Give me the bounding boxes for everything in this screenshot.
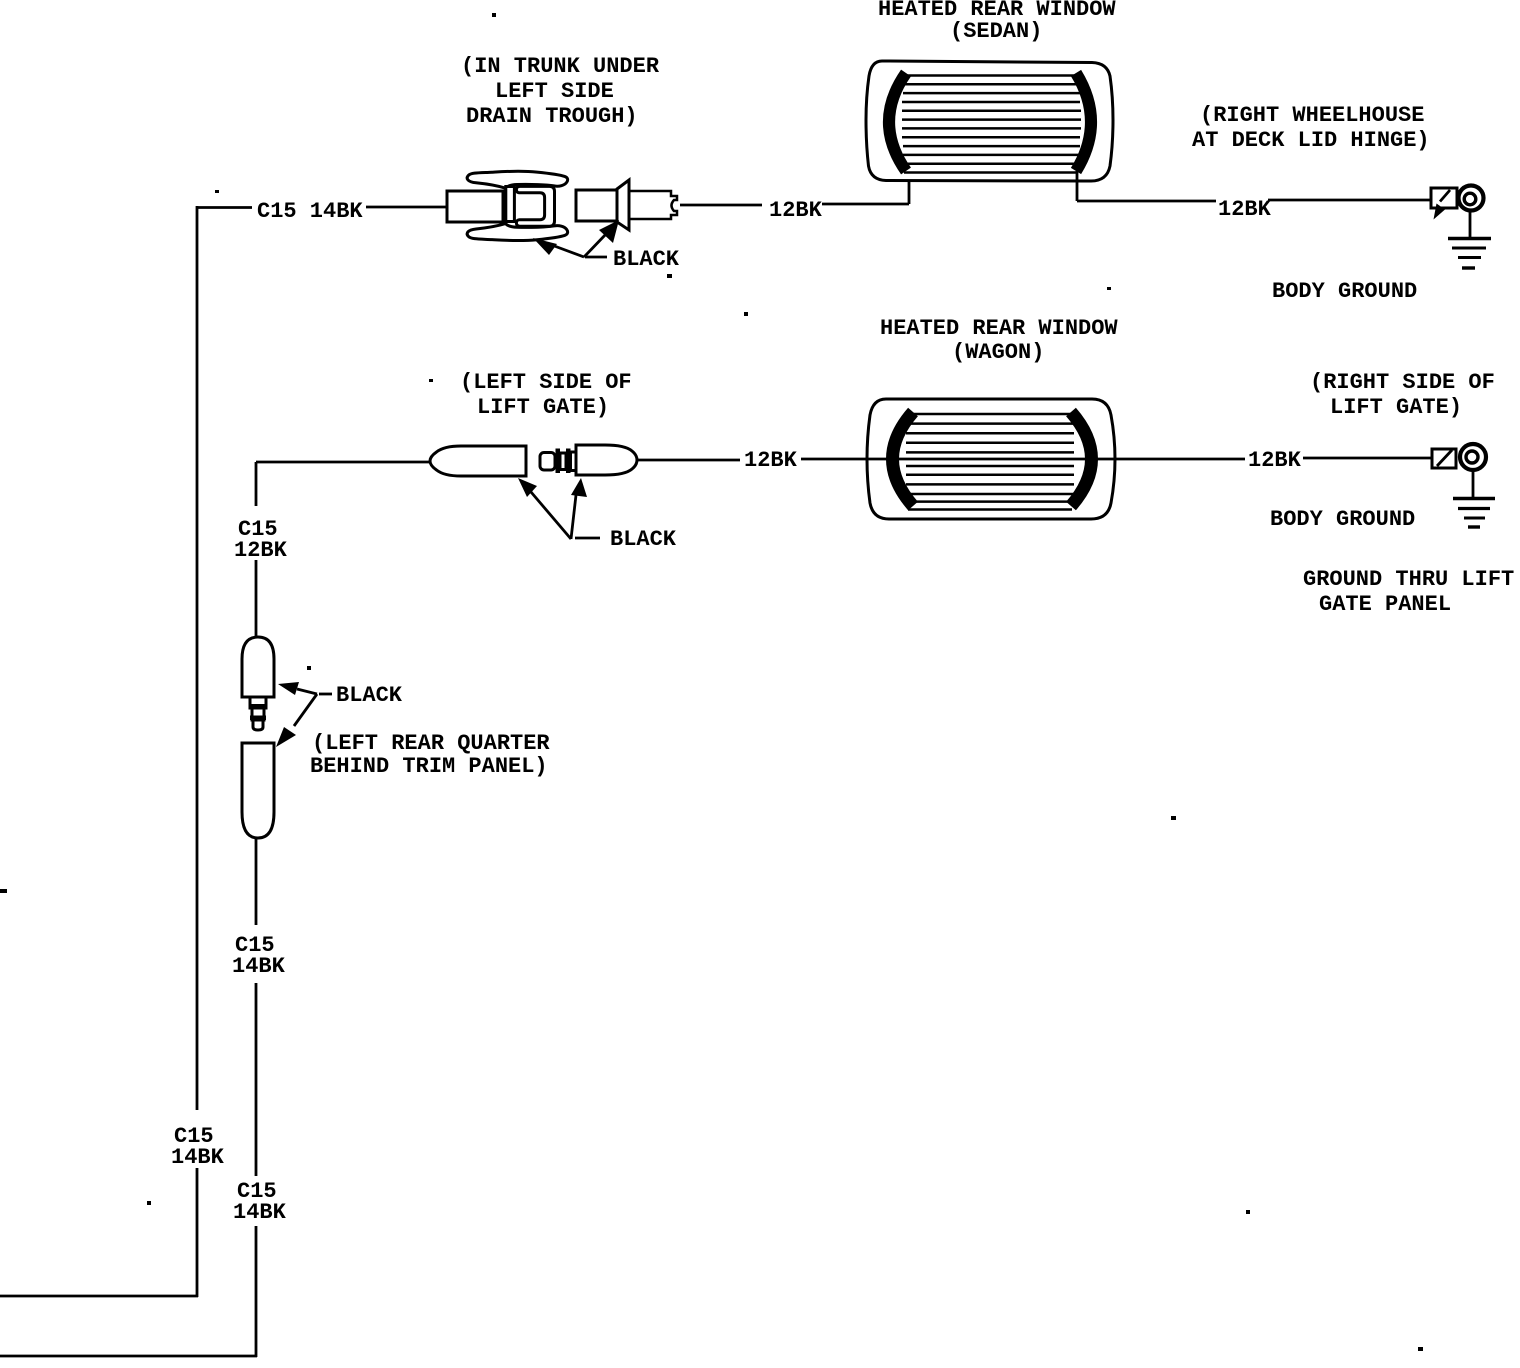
liftgate connector socket: [430, 446, 526, 476]
wagon vertical wire bottom: [255, 1226, 258, 1357]
wire window to 12BK right: [1077, 200, 1216, 203]
svg-text:(LEFT REAR QUARTER: (LEFT REAR QUARTER: [312, 731, 550, 756]
body ground sedan eyelet terminal: [1431, 188, 1457, 208]
left vertical trunk feed wire: [196, 206, 199, 1110]
svg-text:12BK: 12BK: [744, 448, 798, 473]
arrow to upper bullet: [297, 689, 317, 694]
sedan left busbar arc: [889, 73, 906, 171]
connector C15 male flange: [617, 180, 629, 230]
ring terminal sedan: [1459, 186, 1484, 211]
left vertical wire lower segment: [196, 1168, 199, 1297]
svg-text:12BK: 12BK: [1218, 197, 1272, 222]
rear quarter connector socket (upper bullet): [242, 637, 274, 697]
svg-text:BODY GROUND: BODY GROUND: [1270, 507, 1415, 532]
leader to BLACK rear quarter: [319, 693, 332, 696]
wire 12BK to window left stub: [822, 203, 909, 206]
terminal diagonal wagon: [1437, 450, 1452, 466]
svg-text:HEATED REAR WINDOW: HEATED REAR WINDOW: [880, 316, 1118, 341]
label C15 14BK mid: [232, 933, 286, 979]
svg-text:12BK: 12BK: [769, 198, 823, 223]
arrow to bullet: [571, 495, 576, 539]
sedan right busbar arc: [1076, 73, 1091, 171]
svg-text:BLACK: BLACK: [610, 527, 677, 552]
label (IN TRUNK UNDER LEFT SIDE DRAIN TROUGH): [461, 54, 660, 129]
wagon wire to edge: [0, 1355, 257, 1358]
connector C15 clip center column: [506, 187, 515, 222]
ground bars wagon: [1453, 499, 1495, 528]
label (RIGHT SIDE OF LIFT GATE): [1310, 370, 1495, 420]
leader to BLACK liftgate: [575, 537, 600, 540]
rear quarter connector bullet (lower): [242, 743, 274, 838]
connector C15 clip bottom prong: [467, 224, 567, 241]
svg-text:LEFT SIDE: LEFT SIDE: [495, 79, 614, 104]
wagon feed horizontal wire: [256, 461, 431, 464]
connector C15 male half body: [576, 190, 617, 221]
sedan grid lines: [902, 76, 1081, 173]
connector C15 male crimp body with notch: [629, 191, 677, 219]
svg-text:12BK: 12BK: [234, 538, 288, 563]
ground stem sedan: [1469, 212, 1472, 237]
svg-text:(SEDAN): (SEDAN): [950, 19, 1042, 44]
svg-text:14BK: 14BK: [232, 954, 286, 979]
svg-text:14BK: 14BK: [233, 1200, 287, 1225]
label C15 14BK lower: [233, 1179, 287, 1225]
label C15 14BK on left line: [171, 1124, 225, 1170]
rear quarter socket bottom edge: [244, 696, 273, 699]
svg-text:BEHIND TRIM PANEL): BEHIND TRIM PANEL): [310, 754, 548, 779]
svg-text:C15 14BK: C15 14BK: [257, 199, 363, 224]
wagon vertical wire below bullets: [255, 838, 258, 925]
arrow to flange: [584, 233, 607, 257]
wire C15 14BK horizontal top left: [197, 206, 252, 209]
svg-text:LIFT GATE): LIFT GATE): [477, 395, 609, 420]
wagon left busbar arc: [893, 412, 914, 506]
wagon vertical wire segment: [255, 983, 258, 1176]
svg-text:BODY GROUND: BODY GROUND: [1272, 279, 1417, 304]
wagon vertical wire to bullet: [255, 560, 258, 638]
leader line to BLACK: [585, 256, 607, 259]
connector C15 clip top prong: [467, 171, 567, 188]
wagon grid lines: [906, 414, 1074, 510]
svg-text:GATE PANEL: GATE PANEL: [1319, 592, 1451, 617]
svg-text:(IN TRUNK UNDER: (IN TRUNK UNDER: [461, 54, 660, 79]
svg-text:BLACK: BLACK: [336, 683, 403, 708]
ground stem wagon: [1472, 471, 1475, 497]
svg-text:(WAGON): (WAGON): [952, 340, 1044, 365]
label HEATED REAR WINDOW (SEDAN): [878, 0, 1116, 44]
arrow to clip: [549, 244, 584, 257]
wire 12BK to body ground sedan: [1268, 199, 1431, 202]
label (LEFT REAR QUARTER BEHIND TRIM PANEL): [310, 731, 550, 779]
wire bullet to 12BK wagon left: [637, 459, 740, 462]
svg-text:14BK: 14BK: [171, 1145, 225, 1170]
svg-text:GROUND THRU LIFT: GROUND THRU LIFT: [1303, 567, 1514, 592]
wagon vertical wire upper: [255, 462, 258, 506]
label GROUND THRU LIFT GATE PANEL: [1303, 567, 1514, 617]
heated rear window sedan outline: [866, 61, 1113, 181]
label (LEFT SIDE OF LIFT GATE): [460, 370, 632, 420]
arrow to lower bullet: [294, 694, 317, 726]
body ground wagon eyelet terminal: [1432, 449, 1456, 468]
wire label to trunk connector: [366, 206, 447, 209]
ring terminal wagon: [1460, 444, 1486, 470]
liftgate connector bullet: [576, 445, 637, 475]
sedan window left stub: [908, 173, 911, 204]
svg-text:(LEFT SIDE OF: (LEFT SIDE OF: [460, 370, 632, 395]
svg-text:DRAIN TROUGH): DRAIN TROUGH): [466, 104, 638, 129]
wagon right busbar arc: [1071, 412, 1092, 506]
heated rear window wagon outline: [867, 399, 1115, 519]
svg-text:(RIGHT SIDE OF: (RIGHT SIDE OF: [1310, 370, 1495, 395]
wire through wagon window: [801, 458, 1245, 461]
svg-text:LIFT GATE): LIFT GATE): [1330, 395, 1462, 420]
wire trunk connector to sedan window: [680, 204, 762, 207]
liftgate connector male pin: [540, 449, 576, 474]
sedan window right stub: [1076, 171, 1079, 201]
label (RIGHT WHEELHOUSE AT DECK LID HINGE): [1192, 103, 1430, 153]
ground bars sedan: [1448, 239, 1491, 269]
arrow to socket: [531, 492, 571, 539]
svg-text:12BK: 12BK: [1248, 448, 1302, 473]
svg-text:BLACK: BLACK: [613, 247, 680, 272]
svg-text:AT DECK LID HINGE): AT DECK LID HINGE): [1192, 128, 1430, 153]
label HEATED REAR WINDOW (WAGON): [880, 316, 1118, 365]
left wire to edge: [0, 1295, 198, 1298]
wire 12BK to body ground wagon: [1303, 457, 1432, 460]
connector C15 female half (trunk) body: [447, 191, 503, 222]
terminal diagonal with arrow: [1440, 190, 1450, 202]
connector C15 terminal bracket: [516, 186, 554, 226]
rear quarter connector male pin: [249, 697, 267, 730]
svg-text:(RIGHT WHEELHOUSE: (RIGHT WHEELHOUSE: [1200, 103, 1424, 128]
label C15 12BK: [234, 517, 288, 563]
